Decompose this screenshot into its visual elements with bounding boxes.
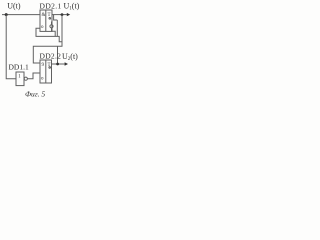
svg-text:DD2.1: DD2.1	[40, 2, 62, 11]
wire stair from bubble	[52, 28, 56, 37]
wire DD1.1 output to DD2.2 lower input	[27, 73, 40, 79]
svg-text:Фиг. 5: Фиг. 5	[25, 90, 45, 99]
block DD2.2 divider	[45, 60, 47, 83]
svg-text:&: &	[42, 13, 46, 18]
pin mark DD2.1 right cell	[49, 18, 51, 20]
wire vertical x57	[56, 20, 58, 36]
block DD2.2 box	[40, 60, 52, 83]
gate DD1.1 inversion bubble	[24, 77, 27, 80]
wire left vertical down to DD1.1	[6, 15, 16, 79]
wire U1 output	[52, 14, 67, 16]
block DD2.1 divider	[45, 10, 47, 31]
arrow U1	[67, 13, 70, 16]
node U1 junction	[61, 13, 64, 16]
node input junction	[5, 13, 8, 16]
svg-text:U2(t): U2(t)	[62, 52, 78, 62]
svg-text:DD1.1: DD1.1	[9, 63, 29, 72]
wire input U(t) horizontal	[2, 14, 40, 16]
wire U1 feedback to DD2.2 upper input	[33, 15, 62, 63]
block DD2.1 box	[40, 10, 52, 31]
gate DD1.1 box	[16, 72, 24, 86]
svg-text:T: T	[48, 13, 51, 18]
wire U2 output	[52, 63, 65, 65]
svg-text:U1(t): U1(t)	[64, 2, 80, 12]
wire U2 node up to feedback line	[57, 46, 59, 64]
arrow U2	[65, 62, 68, 65]
pin mark DD2.2 right cell	[49, 67, 51, 69]
svg-text:T: T	[48, 63, 51, 68]
block DD2.1 output bubble	[51, 22, 53, 25]
wire coupling from U1 line down	[54, 15, 58, 20]
svg-text:U(t): U(t)	[7, 2, 21, 11]
wire feedback to DD2.1 lower input	[36, 28, 62, 42]
node U2 junction	[56, 63, 59, 66]
svg-text:DD2.2: DD2.2	[40, 52, 62, 61]
